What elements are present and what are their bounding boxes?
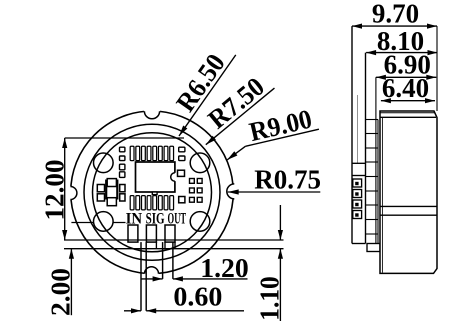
node sensor body side view — [380, 111, 437, 273]
node mounting hole top-right — [190, 153, 210, 173]
node connector strip A left edge — [351, 26, 353, 243]
svg-text:9.70: 9.70 — [372, 0, 419, 29]
node PCB outer circle R9.00 — [71, 111, 234, 274]
svg-text:IN: IN — [126, 210, 143, 227]
svg-text:2.00: 2.00 — [46, 268, 76, 316]
svg-text:1.20: 1.20 — [200, 253, 249, 283]
capacitor pads right of top row — [179, 147, 185, 160]
wire strip A divider 2 — [352, 175, 366, 177]
wire body top line 1 — [380, 112, 435, 114]
dimension R9.00 leader — [239, 102, 319, 148]
resistor pairs right side row1 — [190, 179, 203, 203]
node notch top R0.75 — [144, 111, 159, 119]
dimension 2.00 — [70, 249, 72, 316]
wire body inner left edge — [381, 117, 383, 272]
wire lead line L3 — [162, 242, 164, 279]
node mounting hole top-left — [94, 153, 114, 173]
node notch left R0.75 — [70, 187, 77, 200]
svg-text:0.60: 0.60 — [173, 282, 222, 312]
svg-text:R0.75: R0.75 — [254, 165, 321, 195]
wire body band line 1 — [380, 205, 437, 207]
dimension 1.10 — [279, 205, 281, 240]
wire strip A divider 1 — [352, 162, 366, 164]
node strip B ladder — [375, 77, 377, 243]
node notch right R0.75 — [227, 184, 234, 199]
op-amp U1 central IC — [136, 162, 175, 192]
svg-text:1.10: 1.10 — [254, 276, 284, 321]
dimension 0.60 — [124, 310, 141, 312]
wire extension line right x437 — [436, 26, 438, 111]
wire body band line 2 — [380, 214, 437, 216]
wire extension line top chord for 12.00 — [65, 137, 184, 139]
wire pad edge stubs — [155, 242, 157, 249]
dimension 1.20 — [141, 278, 163, 280]
wire strip A bottom — [352, 243, 366, 245]
wire lead line L1 — [140, 242, 142, 311]
wire body top line 2 — [380, 116, 436, 118]
node strip B bottom box — [367, 244, 380, 252]
transistor Q1 right pads — [120, 185, 125, 192]
resistor array bottom row 8 bars — [130, 196, 173, 210]
transistor Q1 body bars — [105, 180, 107, 200]
transistor Q1 left pads — [97, 185, 104, 192]
node IC right-edge notch — [171, 173, 179, 181]
capacitor single pad lower right of IC — [179, 197, 185, 203]
node mounting hole bottom-left — [94, 212, 114, 232]
wire faint inner line strip A — [357, 95, 359, 163]
dimension 6.40 — [381, 100, 435, 102]
wire chord line upper full-width — [64, 239, 284, 241]
node IC bottom tab — [152, 192, 157, 195]
node mounting hole bottom-right — [190, 212, 210, 232]
node notch bottom R0.75 — [145, 267, 159, 274]
wire lead line L2 — [145, 242, 147, 311]
dimension R0.75 leader — [228, 191, 321, 193]
transistor Q1 left cluster top pad — [107, 179, 116, 187]
capacitor single pad right of notch — [178, 170, 185, 176]
wire chord line lower full-width — [64, 248, 284, 250]
dimension R6.50 leader — [156, 39, 237, 137]
node connector strip A right edge — [365, 53, 367, 244]
svg-text:OUT: OUT — [168, 210, 187, 227]
dimension 12.00 — [64, 138, 66, 240]
node pin pad SIG — [146, 225, 156, 242]
node pin pad OUT — [165, 225, 175, 242]
svg-text:6.40: 6.40 — [382, 73, 429, 103]
dimension R7.50 leader — [188, 66, 276, 146]
wire lead line L4 — [172, 242, 174, 279]
transistor pins on strip A with dots — [353, 179, 362, 219]
node pin pad IN — [128, 225, 138, 242]
dimension 6.90 — [376, 76, 436, 78]
node PCB middle circle R7.50 — [84, 124, 220, 260]
wire extension line short chord left — [71, 222, 125, 224]
capacitor pads left middle pair — [120, 164, 125, 177]
dimension 9.70 — [352, 25, 437, 27]
svg-text:SIG: SIG — [146, 210, 165, 227]
capacitor pads left of top row — [120, 147, 125, 160]
node PCB inner circle R6.50 — [93, 133, 212, 252]
transistor Q1 bottom pad — [107, 198, 116, 206]
dimension 8.10 — [366, 52, 437, 54]
resistor array top row 8 bars — [130, 146, 173, 160]
node notch erasers — [64, 103, 242, 281]
svg-text:12.00: 12.00 — [40, 160, 70, 221]
